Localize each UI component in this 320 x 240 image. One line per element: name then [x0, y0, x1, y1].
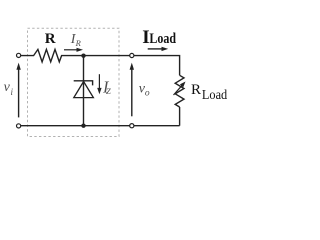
svg-text:Load: Load	[149, 31, 176, 47]
svg-text:Load: Load	[202, 88, 227, 103]
svg-text:Z: Z	[106, 86, 111, 96]
svg-text:R: R	[75, 38, 82, 48]
svg-text:i: i	[11, 87, 14, 97]
svg-text:R: R	[45, 31, 56, 47]
svg-text:R: R	[191, 82, 201, 98]
svg-text:o: o	[145, 88, 150, 98]
